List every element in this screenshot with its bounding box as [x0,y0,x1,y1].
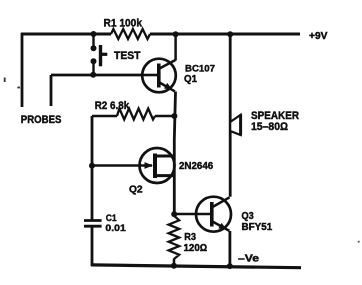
wire speaker drop (top rail to Q3 collector) [229,34,232,197]
node Q2 emitter / left rail [89,163,95,169]
switch TEST contact lower [91,58,97,64]
transistor Q3 [196,197,231,232]
wire left probe lead [21,33,24,107]
wire Q1 emitter to Q2/R3 rail [174,92,175,216]
wire Q1 collector drop [174,34,177,61]
wire TEST lower link [92,64,94,75]
svg-text:Q2: Q2 [129,185,143,196]
transistor Q2 (UJT) [140,148,175,183]
node bottom rail / Q3 emitter [227,263,233,269]
wire second probe lead [50,75,53,106]
wire top rail right segment [150,33,300,36]
speck right edge [358,241,360,243]
node R3 top / Q3 base [171,211,177,217]
svg-text:R2 6.8k: R2 6.8k [95,100,130,112]
wire Q2 emitter lead [92,164,152,167]
speaker horn [230,115,240,135]
wire left rail (R2 to C1) [91,116,94,219]
switch TEST contact upper [91,45,97,51]
wire TEST upper link [92,34,94,46]
svg-text:–Ve: –Ve [238,253,260,264]
svg-text:PROBES: PROBES [21,114,62,126]
switch TEST actuator bar [99,45,102,66]
svg-text:TEST: TEST [114,50,141,62]
wire Q3 emitter drop [228,231,231,266]
svg-text:Q3: Q3 [242,211,255,222]
svg-text:R3: R3 [184,232,196,243]
wire Q1 base rail [51,74,143,77]
node top rail / TEST [91,31,97,37]
svg-text:+9V: +9V [309,31,328,42]
wire C1 bottom lead [91,227,94,266]
resistor R3 [169,216,180,259]
svg-text:0.01: 0.01 [105,223,126,234]
svg-text:BC107: BC107 [185,63,215,74]
switch TEST actuator stem [101,53,108,56]
node base rail / TEST [90,72,96,78]
speck near probe [17,87,20,89]
svg-text:BFY51: BFY51 [242,222,273,233]
svg-text:2N2646: 2N2646 [179,161,214,172]
transistor Q1 [142,59,176,93]
resistor R2 [92,115,117,118]
svg-text:120Ω: 120Ω [184,243,208,254]
node R3 bottom [171,263,177,269]
wire top rail left segment [21,33,111,36]
node R2 / emitter rail [171,113,177,119]
capacitor C1 [84,219,102,222]
wire Q3 base lead [174,213,211,216]
svg-text:Q1: Q1 [184,74,197,85]
wire bottom rail [91,265,301,268]
node top rail / speaker [227,31,233,37]
speck left margin [4,78,6,83]
node top rail / Q1 collector [173,31,179,37]
resistor R1 [111,29,150,39]
svg-text:R1 100k: R1 100k [104,17,143,29]
svg-text:15–80Ω: 15–80Ω [251,121,289,133]
